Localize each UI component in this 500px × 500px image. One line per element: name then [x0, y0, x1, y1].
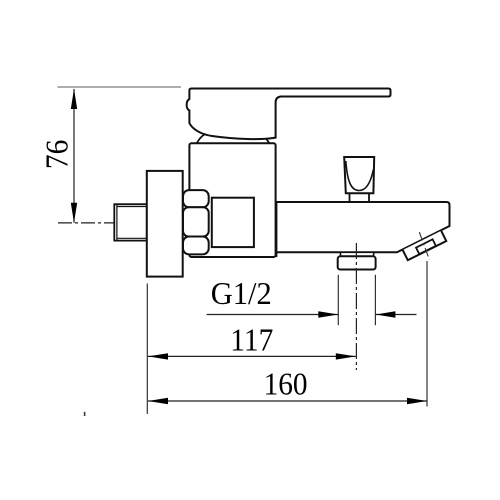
arrowhead right (160): [407, 398, 427, 404]
dimension line 117: [148, 355, 356, 357]
extension line left (x=147): [146, 284, 148, 415]
dimension line G1/2 left part with text underline: [207, 314, 339, 316]
arrowhead left (160): [148, 398, 168, 404]
svg-text:G1/2: G1/2: [211, 275, 272, 311]
cartridge dome left arc: [197, 134, 206, 143]
diverter knob face curve: [346, 161, 374, 191]
svg-text:117: 117: [230, 321, 273, 357]
dimension line G1/2 right part: [375, 314, 416, 316]
extension line G1/2 right edge: [374, 275, 376, 325]
extension line top (gray) for dim 76: [58, 86, 182, 88]
dimension line 76 (vertical): [73, 89, 75, 223]
centerline of wall nipple (dash-dot): [58, 222, 166, 224]
arrowhead right (117): [336, 353, 356, 359]
svg-text:160: 160: [264, 366, 308, 402]
extension line right (x=427): [426, 261, 428, 407]
cartridge dome right arc: [266, 138, 269, 143]
arrowhead left (117): [148, 353, 168, 359]
hose outlet nut: [338, 256, 376, 269]
cartridge escutcheon square on body: [212, 198, 254, 247]
dimension line 160: [148, 400, 427, 402]
arrowhead up (dim 76): [71, 89, 77, 109]
arrowhead left-pointing at G1/2 right edge: [375, 311, 395, 317]
body right edge overlap line: [275, 202, 277, 257]
stray tick mark: [84, 412, 86, 416]
diverter knob: [344, 157, 374, 193]
arrowhead down (dim 76): [71, 203, 77, 223]
aerator centerline (dash-dot): [419, 232, 429, 260]
spout: [276, 202, 449, 252]
handle lever: [187, 89, 391, 140]
aerator (angled outlet): [403, 231, 447, 260]
extension line G1/2 left edge: [337, 275, 339, 325]
wall flange (escutcheon): [147, 171, 183, 277]
hose outlet collar: [341, 252, 374, 256]
diverter knob stem: [350, 193, 370, 202]
faucet body: [189, 143, 275, 257]
wall nipple (threaded tail piece): [114, 204, 147, 240]
hex nut (3 chamfer bands): [183, 190, 209, 254]
svg-text:76: 76: [38, 140, 74, 170]
arrowhead right-pointing at G1/2 left edge: [318, 311, 338, 317]
centerline hose outlet (x=356.4, dash-dot): [355, 243, 357, 370]
